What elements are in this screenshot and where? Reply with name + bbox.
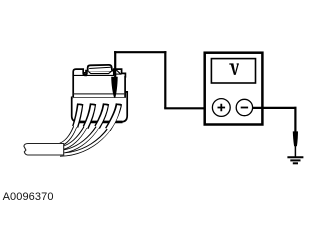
V label glyph [229,63,239,75]
ground symbol bar 2 [290,159,300,161]
plus terminal circle [212,99,230,117]
wire W1 core [60,105,81,144]
connector main body outline [73,69,125,97]
cup bottom heavy rim [76,121,123,124]
wire W1 (leftmost) outline [60,104,80,145]
test probe tip at connector [111,77,118,98]
probe wire top horizontal [114,51,166,53]
body shoulder seam [74,74,114,76]
wire W3 outline [60,104,106,152]
latch hump inner line [89,67,111,68]
left notch hook [84,71,87,75]
voltmeter screen [211,59,255,83]
cup top lip seam [72,97,127,99]
wire harness sheath [24,144,64,156]
figure code label [3,191,54,203]
terminal T3 core [97,105,106,127]
terminal T1 core [75,105,80,126]
plus sign [218,104,226,112]
latch hump [88,65,112,71]
wire into + terminal [164,107,214,109]
voltmeter body [205,53,263,125]
wire down to meter [164,51,166,108]
probe wire vertical [114,51,116,79]
latch front face [86,71,113,74]
wire W4 core [60,105,119,154]
catch box diagonal [116,70,121,75]
wire W3 core [60,105,106,151]
terminal T3 outline [97,104,106,128]
ground symbol bar 1 [287,156,303,158]
wire W4 (rightmost) outline [60,104,119,155]
terminal T4 outline [108,104,119,130]
ground probe tip [293,131,298,146]
catch box bottom [115,73,121,75]
terminal T4 core [108,105,119,129]
wire W2 outline [60,104,93,149]
wire W2 core [60,105,93,148]
wire down to ground [294,107,296,133]
wire from minus terminal [253,107,297,109]
ground symbol bar 3 [293,162,298,164]
connector lower cover (cup) [72,92,128,122]
terminal T2 core [86,105,93,127]
body lower seam [74,93,125,95]
ground lead [294,146,296,157]
minus sign [241,107,248,109]
terminal T1 outline [75,104,80,127]
terminal T2 outline [86,104,93,128]
minus terminal circle [236,99,252,115]
